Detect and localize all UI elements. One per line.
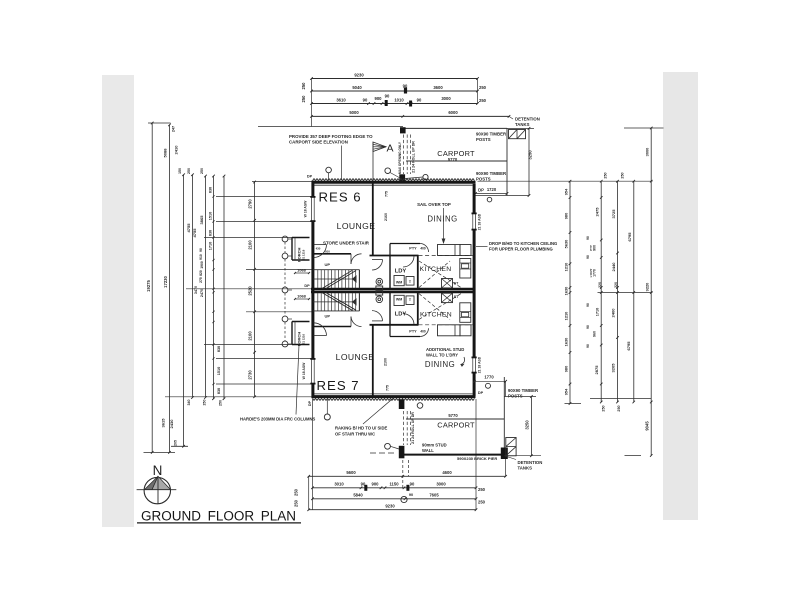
wall ldy/kitchen upper <box>417 256 419 290</box>
svg-text:PTY: PTY <box>409 246 417 250</box>
dp circle bottom left <box>324 414 330 420</box>
svg-text:1720: 1720 <box>487 187 497 192</box>
ldy door arc lower <box>403 314 414 325</box>
svg-text:7605: 7605 <box>429 493 439 498</box>
svg-text:830: 830 <box>217 346 221 352</box>
svg-text:3000: 3000 <box>441 96 451 101</box>
svg-text:275: 275 <box>199 277 203 283</box>
svg-text:19275: 19275 <box>146 280 151 292</box>
bottom dimension chain row 9230 <box>309 509 476 511</box>
svg-text:CARPORT SIDE ELEVATION: CARPORT SIDE ELEVATION <box>289 139 348 144</box>
svg-text:DP: DP <box>308 400 312 406</box>
svg-text:A: A <box>386 143 393 155</box>
right chain outer 9045 <box>650 128 652 456</box>
entry door lower <box>314 323 327 336</box>
svg-text:2470: 2470 <box>200 289 204 297</box>
svg-text:9230: 9230 <box>385 504 395 509</box>
carport bottom bottom edge <box>401 454 505 456</box>
right extension mid <box>598 292 653 294</box>
tub upper <box>406 277 414 286</box>
svg-text:W 18 ASW: W 18 ASW <box>304 200 308 217</box>
svg-text:90: 90 <box>409 493 413 497</box>
right chain 6795 <box>633 181 635 402</box>
svg-text:250: 250 <box>617 405 621 411</box>
porch lower <box>292 321 310 323</box>
house left wall <box>311 181 314 398</box>
wall store upper <box>313 253 351 255</box>
svg-text:90X90 TIMBER: 90X90 TIMBER <box>476 171 507 176</box>
svg-text:KITCHEN: KITCHEN <box>420 312 452 319</box>
svg-text:250: 250 <box>219 400 223 406</box>
svg-text:90: 90 <box>586 303 590 307</box>
pantry upper <box>390 243 420 245</box>
kitchen dashed diagonals upper <box>419 261 461 288</box>
svg-text:LOUNGE: LOUNGE <box>337 221 376 231</box>
svg-text:PTY: PTY <box>409 329 417 333</box>
svg-text:WALL: WALL <box>422 448 434 453</box>
toilet lower <box>376 296 383 303</box>
svg-text:6795: 6795 <box>626 341 631 351</box>
svg-text:3725: 3725 <box>611 209 616 219</box>
carport side dim 3250 bottom <box>530 397 532 456</box>
svg-text:430: 430 <box>316 247 321 251</box>
svg-text:90mm STUD: 90mm STUD <box>422 443 447 448</box>
wm lower <box>394 295 404 305</box>
svg-text:3010: 3010 <box>334 482 344 487</box>
left chain G <box>213 176 215 399</box>
svg-text:250: 250 <box>479 85 487 90</box>
roller door dashed bottom <box>403 411 405 445</box>
svg-text:1770: 1770 <box>484 375 494 380</box>
svg-text:LOUNGE: LOUNGE <box>336 352 375 362</box>
house right wall <box>473 184 476 396</box>
svg-text:220: 220 <box>614 282 618 288</box>
wall wc/ldy upper <box>389 256 391 290</box>
stove upper <box>442 279 453 288</box>
svg-text:5840: 5840 <box>353 493 363 498</box>
fridge bench dining lower <box>438 325 461 336</box>
svg-text:910: 910 <box>199 254 203 260</box>
wm upper <box>394 276 404 286</box>
svg-text:21 1216: 21 1216 <box>301 334 305 345</box>
carport beam line <box>406 160 507 162</box>
wall lounge/dining lower <box>372 325 374 396</box>
flag A <box>372 142 374 181</box>
svg-text:250: 250 <box>187 168 191 174</box>
left scan shadow band <box>102 75 134 527</box>
svg-text:POSTS: POSTS <box>476 137 491 142</box>
svg-text:3865: 3865 <box>199 215 204 225</box>
party wall <box>311 288 476 290</box>
footing leader <box>341 146 343 181</box>
title underline <box>137 522 301 524</box>
wc door upper <box>372 259 383 261</box>
bottom dimension chain row 3010 etc <box>313 487 477 489</box>
window right lower 2118ASD <box>473 357 476 373</box>
svg-text:250: 250 <box>203 400 207 406</box>
svg-text:980: 980 <box>564 213 569 220</box>
svg-text:RES 7: RES 7 <box>317 378 360 393</box>
svg-text:L'DRY: L'DRY <box>589 269 593 278</box>
svg-text:KITCHEN: KITCHEN <box>420 266 452 273</box>
left chain 19275 <box>151 123 153 452</box>
svg-text:1510: 1510 <box>209 212 213 220</box>
svg-text:FOR UPPER FLOOR PLUMBING: FOR UPPER FLOOR PLUMBING <box>489 246 553 251</box>
svg-text:5088: 5088 <box>163 148 168 158</box>
svg-text:9045: 9045 <box>645 421 650 431</box>
svg-text:900: 900 <box>375 96 383 101</box>
svg-text:9220: 9220 <box>645 283 650 292</box>
svg-text:TANKS: TANKS <box>518 465 533 470</box>
wall wc/ldy lower <box>389 292 391 325</box>
stairs lower <box>313 310 360 312</box>
svg-text:4600: 4600 <box>442 470 452 475</box>
svg-text:ADDITIONAL STUD: ADDITIONAL STUD <box>426 347 464 352</box>
dp circle right <box>487 197 492 202</box>
centreline dashes bottom <box>370 452 397 454</box>
svg-text:6795: 6795 <box>627 232 632 242</box>
svg-text:17230: 17230 <box>163 276 168 288</box>
house top wall <box>312 181 476 184</box>
svg-text:250: 250 <box>478 500 486 505</box>
svg-text:830: 830 <box>217 388 221 394</box>
svg-text:21 1216: 21 1216 <box>301 249 305 260</box>
stairs upper <box>313 269 360 271</box>
wall ldy top lower <box>370 324 419 326</box>
svg-text:DINING: DINING <box>425 360 455 369</box>
svg-text:2410: 2410 <box>174 145 179 155</box>
svg-text:WM: WM <box>396 297 402 301</box>
top dimension chain row 9230 <box>312 78 478 80</box>
svg-text:90: 90 <box>199 248 203 252</box>
svg-text:900: 900 <box>593 245 597 251</box>
svg-text:6000: 6000 <box>448 110 458 115</box>
tub lower <box>406 296 414 305</box>
top dimension chain row 5040/3600 <box>312 90 478 92</box>
pantry lower <box>390 336 420 338</box>
svg-text:3470: 3470 <box>194 286 198 294</box>
svg-text:1710: 1710 <box>596 308 600 316</box>
svg-text:MAX OPENING ONLY: MAX OPENING ONLY <box>398 141 402 174</box>
svg-text:250: 250 <box>478 487 486 492</box>
carport bottom right edge <box>503 377 505 455</box>
bottom extension lines <box>312 399 314 510</box>
svg-text:5040: 5040 <box>352 85 362 90</box>
svg-text:POSTS: POSTS <box>476 176 491 181</box>
svg-text:250: 250 <box>604 172 608 178</box>
svg-text:1210: 1210 <box>564 263 569 272</box>
svg-text:21 18 ASD: 21 18 ASD <box>477 356 481 373</box>
roller door dashed lines <box>403 135 405 175</box>
svg-text:1710: 1710 <box>209 242 213 250</box>
svg-text:9230: 9230 <box>354 73 364 78</box>
svg-text:SAIL OVER TOP: SAIL OVER TOP <box>417 202 451 207</box>
window left lower W18ASW <box>311 359 314 385</box>
kitchen bench right lower <box>460 303 471 323</box>
svg-text:820: 820 <box>199 270 203 276</box>
svg-text:2400: 2400 <box>611 308 616 318</box>
stove lower <box>442 293 453 302</box>
svg-text:DP: DP <box>304 284 310 288</box>
svg-text:TANKS: TANKS <box>515 122 530 127</box>
svg-text:1630: 1630 <box>564 338 569 347</box>
svg-text:W 18 ASW: W 18 ASW <box>302 362 306 379</box>
svg-text:POSTS: POSTS <box>508 393 523 398</box>
svg-text:1068: 1068 <box>297 293 306 298</box>
svg-text:STORE UNDER STAIR: STORE UNDER STAIR <box>323 240 370 245</box>
svg-text:LDY: LDY <box>395 312 407 318</box>
svg-text:2520: 2520 <box>248 286 253 296</box>
kitchen bench right upper <box>460 259 471 279</box>
svg-text:DP: DP <box>478 391 484 395</box>
top dimension chain row 3610/900/1010/3000 <box>312 103 478 105</box>
svg-text:DETENTION: DETENTION <box>518 460 543 465</box>
svg-text:250: 250 <box>301 95 306 103</box>
svg-text:250: 250 <box>602 405 606 411</box>
wall ldy/kitchen lower <box>417 292 419 325</box>
svg-text:247: 247 <box>172 126 176 132</box>
left chain H ticks <box>223 176 225 399</box>
svg-text:250: 250 <box>294 499 299 507</box>
svg-text:1010: 1010 <box>394 98 404 103</box>
right extension top <box>478 180 653 182</box>
window left upper W18ASW <box>311 197 314 222</box>
svg-text:3600: 3600 <box>433 85 443 90</box>
carport side dim 3250 top <box>528 128 530 195</box>
wall lounge/dining upper <box>372 183 374 256</box>
svg-text:21 24 ROLL UP DR: 21 24 ROLL UP DR <box>412 141 416 173</box>
svg-text:250: 250 <box>621 172 625 178</box>
svg-text:3610: 3610 <box>336 97 346 102</box>
svg-text:5600: 5600 <box>346 470 356 475</box>
svg-text:LDY: LDY <box>395 269 407 275</box>
provide footing line <box>258 126 403 128</box>
svg-text:90: 90 <box>410 482 415 487</box>
svg-text:2730: 2730 <box>248 370 253 380</box>
right chain 2475 <box>600 181 602 402</box>
svg-text:3000: 3000 <box>436 481 446 486</box>
svg-text:GROUND FLOOR PLAN: GROUND FLOOR PLAN <box>141 509 296 525</box>
svg-text:250: 250 <box>294 488 299 496</box>
window right upper 2118ASD <box>473 213 476 230</box>
dp circles top <box>326 167 332 173</box>
fridge bench dining upper <box>438 245 461 256</box>
svg-text:775: 775 <box>386 385 390 391</box>
svg-text:2790: 2790 <box>248 199 253 209</box>
svg-text:21 18 ASD: 21 18 ASD <box>478 213 482 230</box>
svg-text:WM: WM <box>396 280 402 284</box>
svg-text:2430: 2430 <box>169 419 174 429</box>
svg-text:150: 150 <box>178 168 182 174</box>
svg-text:1210: 1210 <box>564 312 569 321</box>
svg-text:3250: 3250 <box>525 420 530 430</box>
door store lower <box>350 317 352 327</box>
bottom dimension chain row 5840/7605 <box>313 498 477 500</box>
ldy door arc upper <box>403 256 414 267</box>
svg-text:2100: 2100 <box>248 331 253 341</box>
svg-text:90X90 TIMBER: 90X90 TIMBER <box>508 388 539 393</box>
svg-text:1630: 1630 <box>564 287 569 296</box>
svg-text:HARDIE'S 203MM DIA FRC COLUMNS: HARDIE'S 203MM DIA FRC COLUMNS <box>240 417 315 422</box>
svg-text:90: 90 <box>586 236 590 240</box>
svg-text:PTY: PTY <box>589 245 593 251</box>
stair cut upper <box>322 271 352 289</box>
svg-text:775: 775 <box>385 191 389 197</box>
svg-text:3250: 3250 <box>528 150 533 160</box>
svg-text:2440: 2440 <box>611 262 616 272</box>
svg-text:4755: 4755 <box>192 228 197 238</box>
left chain E <box>205 176 207 398</box>
svg-text:2160: 2160 <box>384 213 388 221</box>
svg-text:DINING: DINING <box>427 215 457 224</box>
svg-text:N: N <box>153 463 163 478</box>
svg-text:960: 960 <box>593 331 597 337</box>
svg-text:5000: 5000 <box>349 110 359 115</box>
svg-text:UP: UP <box>325 314 331 319</box>
door store upper <box>350 254 352 264</box>
right scan shadow band <box>663 72 698 520</box>
svg-text:250: 250 <box>200 168 204 174</box>
svg-text:2100: 2100 <box>248 240 253 250</box>
right extension bottom <box>590 397 652 399</box>
detention tank symbol bottom <box>506 438 516 456</box>
svg-text:1068: 1068 <box>297 267 306 272</box>
svg-text:1900: 1900 <box>200 261 204 269</box>
svg-text:RAKING B/ HD TO U/ SIDE: RAKING B/ HD TO U/ SIDE <box>335 425 387 430</box>
carport post top-left <box>400 127 406 133</box>
svg-text:250: 250 <box>301 82 306 90</box>
svg-text:90X90 TIMBER: 90X90 TIMBER <box>476 132 507 137</box>
svg-text:5770: 5770 <box>448 413 458 418</box>
right chain 3725 <box>617 181 619 402</box>
north arrow <box>144 477 170 503</box>
porch upper <box>292 237 310 239</box>
downpipe circles left column <box>282 236 288 242</box>
carport post at wall <box>399 174 405 182</box>
svg-text:1770: 1770 <box>593 269 597 277</box>
wc door lower <box>372 320 383 322</box>
svg-text:OF STAIR THRU WC: OF STAIR THRU WC <box>335 431 375 436</box>
right chain 954/980 <box>569 181 571 403</box>
svg-text:5770: 5770 <box>448 157 458 162</box>
svg-text:90: 90 <box>385 94 390 99</box>
svg-text:UP: UP <box>325 262 331 267</box>
left chain 17230 <box>169 125 171 453</box>
svg-text:3615: 3615 <box>161 418 166 428</box>
svg-text:3000: 3000 <box>645 148 650 157</box>
svg-text:WALL TO L'DRY: WALL TO L'DRY <box>426 353 458 358</box>
svg-text:DP: DP <box>307 174 313 178</box>
svg-text:RES 6: RES 6 <box>319 190 362 205</box>
svg-text:90: 90 <box>363 98 368 103</box>
svg-text:2875: 2875 <box>594 365 599 375</box>
svg-text:3205: 3205 <box>611 363 616 373</box>
svg-text:250: 250 <box>479 98 487 103</box>
svg-text:205: 205 <box>174 440 178 446</box>
left chain 2790/2100/2520 <box>254 182 256 397</box>
extension: house corner up to chain <box>311 79 313 127</box>
svg-text:220: 220 <box>598 282 602 288</box>
left chain D <box>192 175 194 398</box>
carport top edge <box>403 127 508 129</box>
svg-text:90: 90 <box>586 255 590 259</box>
left chain C <box>183 175 185 447</box>
svg-text:830: 830 <box>209 230 213 236</box>
svg-text:1510: 1510 <box>217 367 221 375</box>
left extension lines <box>252 181 313 183</box>
kitchen dining dashed boundary lower <box>419 324 473 326</box>
svg-text:DP: DP <box>478 187 484 192</box>
top dimension chain row 5000/6000 <box>312 115 510 117</box>
svg-text:DETENTION: DETENTION <box>515 117 540 122</box>
stair cut lower <box>322 293 352 311</box>
kitchen dining dashed boundary upper <box>419 255 473 257</box>
carport bottom piers <box>399 400 405 410</box>
svg-text:340: 340 <box>187 400 191 406</box>
svg-text:5630: 5630 <box>564 240 569 249</box>
dp circle carport bottom <box>417 403 423 409</box>
svg-text:2100: 2100 <box>384 358 388 366</box>
svg-text:954: 954 <box>564 388 569 395</box>
entry door upper <box>314 245 327 258</box>
house bottom wall <box>312 395 476 398</box>
svg-text:400: 400 <box>420 246 426 250</box>
bottom dimension chain row 5600/4600 <box>309 475 506 477</box>
svg-text:1150: 1150 <box>389 482 399 487</box>
svg-text:954: 954 <box>564 188 569 195</box>
svg-text:21 24 ROLL UP DR: 21 24 ROLL UP DR <box>411 412 415 444</box>
toilet upper <box>376 278 383 285</box>
wall ldy top upper <box>370 255 419 257</box>
svg-text:90: 90 <box>586 325 590 329</box>
svg-text:910: 910 <box>325 250 330 254</box>
svg-text:590X230 BRICK PIER: 590X230 BRICK PIER <box>457 456 497 461</box>
carport bottom top line <box>406 418 504 420</box>
svg-text:CARPORT: CARPORT <box>437 421 475 430</box>
kitchen dashed diagonals lower <box>419 294 461 320</box>
svg-text:90: 90 <box>417 98 422 103</box>
wall store lower <box>313 326 351 328</box>
svg-text:400: 400 <box>420 329 426 333</box>
svg-text:2475: 2475 <box>595 207 600 217</box>
detention tank symbol top <box>509 130 526 139</box>
svg-text:4755: 4755 <box>186 223 191 233</box>
svg-text:90: 90 <box>586 344 590 348</box>
svg-text:830: 830 <box>209 187 213 193</box>
svg-text:DROP B/HD TO KITCHEN CEILING: DROP B/HD TO KITCHEN CEILING <box>489 241 557 246</box>
carport right edge <box>506 128 508 195</box>
svg-text:900: 900 <box>372 482 380 487</box>
svg-text:980: 980 <box>564 366 569 373</box>
svg-text:PROVIDE 357 DEEP FOOTING EDGE: PROVIDE 357 DEEP FOOTING EDGE TO <box>289 134 373 139</box>
